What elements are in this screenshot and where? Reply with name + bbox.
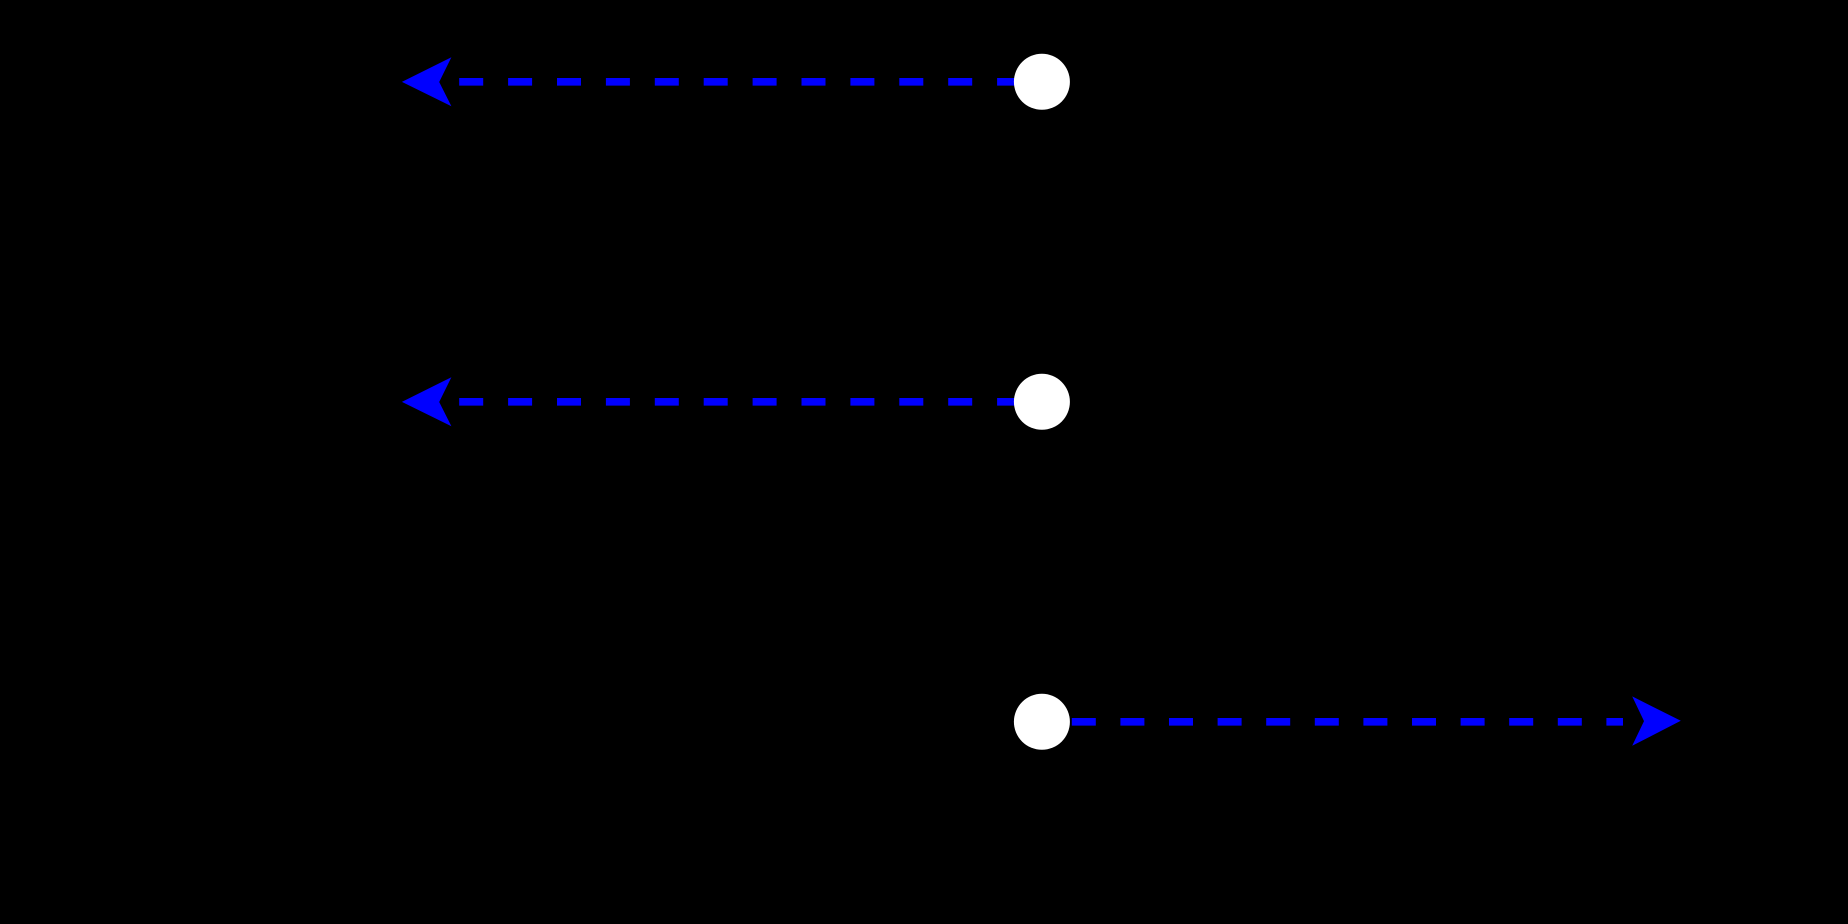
- wire velocity dashed line v3 (bottom, rightward): [1072, 718, 1623, 726]
- wire velocity dashed line v1 (top, leftward): [448, 78, 1021, 86]
- arrowhead v2 (points left): [402, 377, 452, 426]
- particle 2 (middle white circle): [1014, 374, 1070, 430]
- arrowhead v3 (points right): [1632, 696, 1681, 745]
- arrowhead v1 (points left): [402, 57, 452, 106]
- wire velocity dashed line v2 (middle, leftward): [448, 398, 1021, 406]
- particle 3 (bottom white circle): [1014, 694, 1070, 750]
- particle 1 (top white circle): [1014, 54, 1070, 110]
